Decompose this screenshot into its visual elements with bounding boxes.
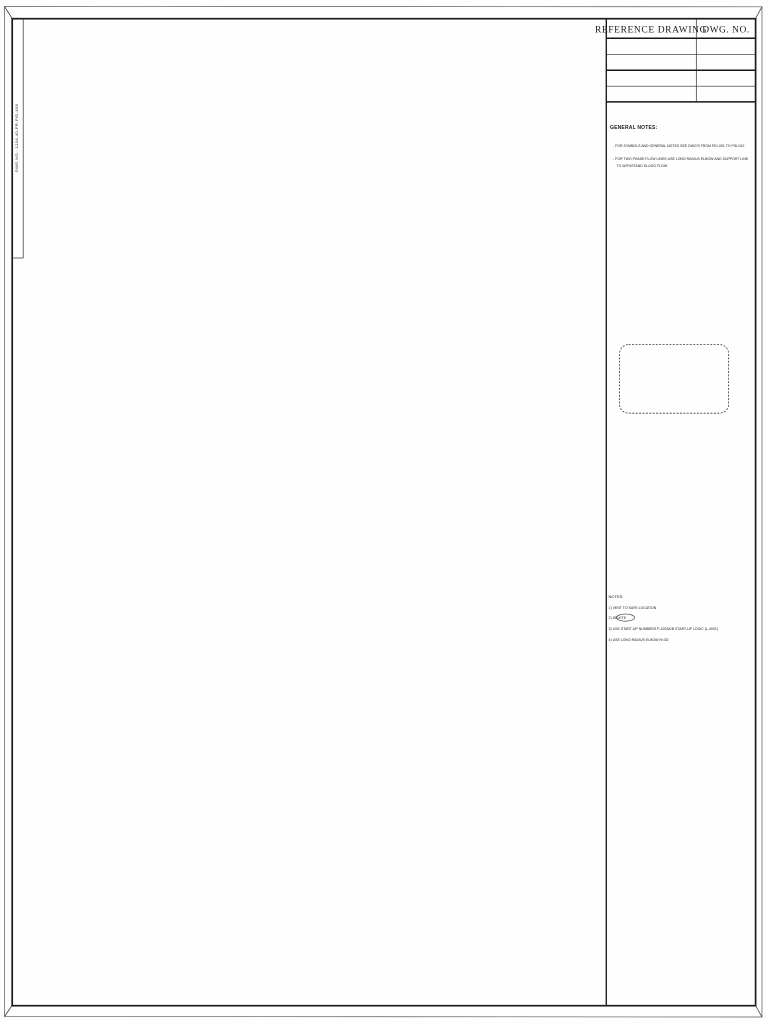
svg-text:4) USE LONG RADIUS ELBOW R=3D: 4) USE LONG RADIUS ELBOW R=3D bbox=[609, 638, 669, 642]
general notes bbox=[610, 125, 749, 168]
corner fold top-left bbox=[5, 7, 13, 20]
svg-text:NOTES:: NOTES: bbox=[609, 594, 624, 599]
corner fold bottom-right bbox=[756, 1006, 763, 1018]
corner fold bottom-left bbox=[5, 1006, 13, 1017]
svg-text:DWG NO.: 1204-40-PR-PID-406: DWG NO.: 1204-40-PR-PID-406 bbox=[14, 103, 19, 172]
notes list bbox=[609, 594, 719, 642]
svg-text:3) USE START-UP NUMBERS P-4203: 3) USE START-UP NUMBERS P-4203A/B START-… bbox=[609, 627, 719, 631]
svg-text:1) VENT TO SAFE LOCATION: 1) VENT TO SAFE LOCATION bbox=[609, 606, 657, 610]
corner fold top-right bbox=[756, 7, 763, 19]
ruler ticks top bbox=[0, 0, 1, 1]
svg-text:TO WITHSTAND SLUGG FLOW: TO WITHSTAND SLUGG FLOW bbox=[617, 164, 668, 168]
hold cloud box bbox=[620, 345, 729, 414]
column divider bbox=[605, 19, 607, 1006]
svg-text:- FOR TWO PHASE FLOW LINES USE: - FOR TWO PHASE FLOW LINES USE LONG RADI… bbox=[613, 157, 749, 161]
svg-text:GENERAL NOTES:: GENERAL NOTES: bbox=[610, 125, 658, 131]
svg-text:- FOR SYMBOLS AND GENERAL NOTE: - FOR SYMBOLS AND GENERAL NOTES SEE DWG'… bbox=[613, 144, 744, 148]
reference drawing table bbox=[595, 19, 756, 102]
svg-text:REFERENCE DRAWING: REFERENCE DRAWING bbox=[595, 26, 707, 36]
svg-text:DWG. NO.: DWG. NO. bbox=[702, 26, 750, 36]
